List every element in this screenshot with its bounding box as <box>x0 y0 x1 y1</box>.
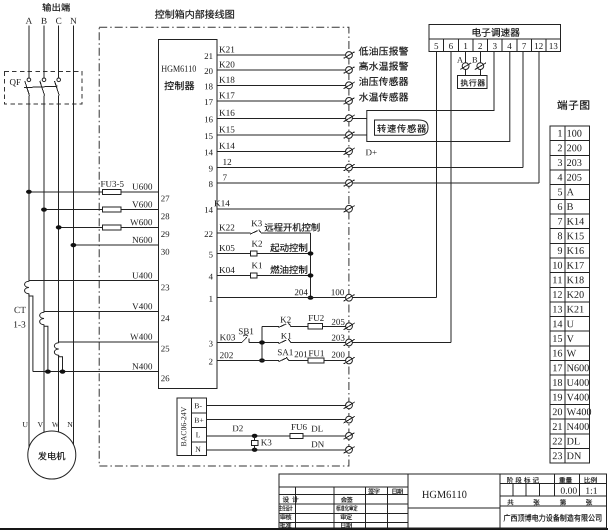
terminal 12 : K20 <box>553 291 584 298</box>
junction node N/K3 <box>252 448 258 452</box>
junction node 204/100 <box>308 296 314 300</box>
junction node CT2 secondary / N400 <box>45 370 51 374</box>
terminal node row K21 <box>344 52 355 59</box>
label V600 <box>132 201 152 207</box>
pin label K14 <box>219 143 234 149</box>
label 201 <box>295 351 308 357</box>
junction node N / N600 <box>71 243 77 247</box>
label 205 <box>332 319 345 325</box>
phase label B <box>41 18 46 24</box>
sheet bottom border <box>0 528 608 530</box>
electronic governor 电子调速器 box <box>429 24 561 38</box>
CT3 secondary wire to N400 node <box>59 355 63 372</box>
control box dash-dot boundary <box>99 27 349 466</box>
speed sensor wire K16 to bracket <box>352 117 366 119</box>
label DN <box>311 441 324 447</box>
wire governor pin 2 to actuator B <box>479 52 481 76</box>
actuator 执行器 box <box>458 76 488 89</box>
wire row K2 to fuse FU2 <box>262 325 346 327</box>
contact K3 on row K22 <box>250 230 261 235</box>
wire controller pin 15 row K15 <box>217 134 346 136</box>
governor terminal 1 <box>464 43 467 49</box>
title block model HGM6110 <box>422 491 466 498</box>
fuse FU6 <box>290 433 303 438</box>
terminal 20 : W400 <box>553 408 591 415</box>
title block header 日期2 <box>392 488 403 494</box>
terminal node row K17 <box>344 98 355 105</box>
governor terminal 13 <box>550 43 558 49</box>
title block company 广西顶博电力设备制造有限公司 <box>504 514 602 522</box>
label BAC06-24V vertical <box>181 407 186 447</box>
relay coil K1 on row K04 <box>250 273 257 278</box>
wire node 203 to governor pin 6 <box>352 342 451 344</box>
terminal node DL <box>344 433 355 440</box>
wire governor pin 5 down to node 100 <box>435 52 437 298</box>
label W600 <box>130 219 152 225</box>
junction node CT3 secondary / N400 <box>60 370 66 374</box>
wire phase A vertical <box>28 26 30 448</box>
governor terminal strip <box>429 39 561 52</box>
fuse FU3-5 element on W600 <box>103 225 122 230</box>
terminal 22 : DL <box>553 438 580 445</box>
label 起动控制 <box>270 243 307 252</box>
wire V600 to controller pin 28 <box>44 209 159 211</box>
junction node riser/K04 <box>308 273 314 277</box>
label 高水温报警 <box>359 61 408 70</box>
wire controller pin 14 row K14 <box>217 150 346 152</box>
wire node 100 to governor pin 5 <box>352 297 436 299</box>
wire controller pin 20 row K20 <box>217 69 346 71</box>
label A <box>457 57 463 63</box>
speed sensor label box 转速传感器 <box>375 120 429 135</box>
governor terminal 5 <box>435 43 439 49</box>
wire row 202 <box>217 360 346 362</box>
wire row K03 from pin 3 <box>217 342 262 344</box>
pin number 9 <box>209 166 213 172</box>
terminal node 203 <box>344 339 355 346</box>
wire governor pin 12 to row 7 <box>352 52 539 183</box>
title block 共张 <box>507 499 539 505</box>
terminal 10 : K17 <box>553 262 584 269</box>
pin label K03 <box>220 334 235 340</box>
label: output terminal 输出端 <box>42 3 70 12</box>
speed sensor wire K15 to bracket <box>352 134 366 136</box>
speed sensor bracket and leads to governor <box>367 52 510 142</box>
generator terminal label V <box>38 422 43 427</box>
terminal node row K20 <box>344 67 355 74</box>
governor terminal 4 <box>507 43 511 49</box>
label U600 <box>132 183 152 189</box>
pin number 1 <box>209 296 212 302</box>
title block header 签字 <box>368 488 380 494</box>
pin label K21 <box>219 46 234 52</box>
terminal 3 : 203 <box>558 159 582 166</box>
wire row K22 remote start <box>217 232 311 234</box>
wire U600 to controller pin 27 <box>29 191 159 193</box>
label FU1 <box>309 350 324 356</box>
wire row L / DL <box>206 435 345 437</box>
label K2 contact <box>280 317 290 323</box>
terminal node A <box>460 63 471 70</box>
fuse FU3-5 element on V600 <box>103 207 122 212</box>
bus riser joining K22/K05/K04 to node 204 <box>310 233 312 298</box>
label FU6 <box>291 424 306 430</box>
terminal node B+ <box>344 416 355 423</box>
breaker QF pole C contact <box>55 78 61 96</box>
CT1 secondary wire to N400 node <box>29 294 33 372</box>
label FU3-5 <box>101 181 124 187</box>
pin label K17 <box>219 92 234 98</box>
current transformer CT2 on phase B <box>40 312 44 324</box>
label CT 1-3 <box>14 307 26 328</box>
phase label C <box>56 18 61 24</box>
breaker QF linkage bar <box>24 86 57 87</box>
label L <box>196 432 200 437</box>
label S41 <box>278 349 293 355</box>
wire W400 to controller pin 25 <box>59 341 159 343</box>
label 204 <box>295 289 308 295</box>
pin number 16 <box>205 116 213 122</box>
label 200 <box>332 352 345 358</box>
governor terminal 3 <box>493 43 497 49</box>
generator terminal label U <box>23 422 28 427</box>
governor terminal 2 <box>478 43 482 49</box>
terminal 13 : K21 <box>553 306 583 313</box>
wire governor pin 6 down to node 203 <box>450 52 452 343</box>
terminal node 100 <box>344 294 355 301</box>
pin number 27 <box>161 196 169 202</box>
label W400 <box>130 334 152 340</box>
contact K2 on row 205 <box>279 323 291 328</box>
junction node riser/K03 row <box>259 340 265 344</box>
pin label K22 <box>219 224 234 230</box>
battery charger BAC06-24V box <box>177 398 206 456</box>
label K2 <box>252 241 262 247</box>
wire controller pin 18 row K18 <box>217 84 346 86</box>
phase label N <box>70 18 76 24</box>
label D2 <box>233 425 243 431</box>
wire V400 to controller pin 24 <box>44 311 159 313</box>
label FU2 <box>308 315 323 321</box>
governor terminal 7 <box>522 43 526 49</box>
title block 第张 <box>560 499 592 505</box>
label 水温传感器 <box>359 92 408 101</box>
wire phase C vertical <box>58 26 60 433</box>
current transformer CT3 on phase C <box>54 343 58 355</box>
wire phase B vertical <box>43 26 45 433</box>
wire row K04 fuel control <box>217 275 311 277</box>
junction node phase B / V600 <box>41 208 47 212</box>
terminal 19 : V400 <box>553 394 589 401</box>
label K3 <box>251 220 261 226</box>
pin number 4 <box>209 274 213 280</box>
label SB1 <box>239 328 253 334</box>
terminal 2 : 200 <box>558 144 582 151</box>
fuse FU1 <box>308 358 324 363</box>
terminal 21 : N400 <box>553 423 589 430</box>
pin number 23 <box>161 284 169 290</box>
contact S41 on row 202 <box>279 357 289 362</box>
junction node phase C / W600 <box>56 225 62 229</box>
pin label K16 <box>219 110 234 116</box>
label V400 <box>132 303 152 309</box>
pin number 3 <box>209 341 213 347</box>
terminal 23 : DN <box>553 452 581 459</box>
wire row B- to terminal <box>206 404 345 406</box>
title block label 主任设计 <box>279 505 293 511</box>
wire controller pin 16 row K16 <box>217 117 346 119</box>
pin label 202 <box>220 352 233 358</box>
governor terminal 12 <box>535 43 543 49</box>
terminal node B- <box>344 402 355 409</box>
wire row N / DN <box>206 449 345 451</box>
pin number 8 <box>209 181 213 187</box>
terminal node 205 <box>344 323 355 330</box>
wire controller pin 14 row K14 <box>217 208 346 210</box>
label K1 <box>252 262 262 268</box>
riser SB1 node to rows K2 and 202 <box>261 326 263 360</box>
pin number 30 <box>161 249 169 255</box>
phase label A <box>26 18 32 24</box>
pin number 29 <box>161 231 169 237</box>
pin label K18 <box>219 77 234 83</box>
terminal 17 : N600 <box>553 364 589 371</box>
label 油压传感器 <box>359 77 408 86</box>
label N600 <box>132 237 152 243</box>
pin number 14 <box>205 207 213 213</box>
label N400 <box>132 363 152 369</box>
terminal node row K15 <box>344 132 355 139</box>
label D+ <box>366 149 377 155</box>
pin number 17 <box>205 99 213 105</box>
terminal node row K14 <box>344 205 355 212</box>
terminal node B <box>475 63 486 70</box>
wire N400 to controller pin 26 <box>33 371 159 373</box>
terminal 5 : A <box>558 189 574 196</box>
junction node phase A / U600 <box>26 190 32 194</box>
pin number 25 <box>161 346 169 352</box>
junction node L/K3 <box>252 434 258 438</box>
pin number 21 <box>205 53 213 59</box>
generator terminal label N <box>67 422 72 427</box>
wire W600 to controller pin 29 <box>59 226 159 228</box>
wire N600 to controller pin 30 <box>73 244 158 246</box>
pin number 28 <box>161 213 169 219</box>
wire neutral N vertical <box>72 26 74 445</box>
terminal node row 12 <box>344 164 355 171</box>
pin label 12 <box>223 159 231 165</box>
wire controller pin 21 row K21 <box>217 54 346 56</box>
label N <box>195 447 200 452</box>
terminal 14 : U <box>553 320 574 327</box>
label 燃油控制 <box>270 265 307 274</box>
terminal 1 : 100 <box>558 130 581 137</box>
title block label 审定 <box>341 514 353 520</box>
label: control box internal wiring diagram title <box>155 9 234 19</box>
title block label 日期 <box>341 522 352 528</box>
terminal 8 : K15 <box>558 232 584 239</box>
wire governor pin 1 to actuator A <box>465 52 467 76</box>
CT2 secondary wire to N400 node <box>44 325 48 372</box>
terminal 7 : K14 <box>558 218 584 225</box>
pin number 24 <box>161 315 169 321</box>
breaker QF pole A contact <box>25 78 31 96</box>
junction node riser/K05 <box>308 251 314 255</box>
pin label K20 <box>219 61 234 67</box>
title block label 批准 <box>280 522 292 528</box>
terminal node 200 <box>344 357 355 364</box>
pin label K04 <box>219 267 234 273</box>
terminal table grid <box>550 126 590 463</box>
pin label K14 <box>214 200 229 206</box>
fuse FU2 <box>308 324 323 329</box>
title block header 重量 <box>559 477 572 483</box>
wire row B+ to terminal <box>206 419 345 421</box>
pin label 7 <box>223 175 227 181</box>
title block scale 1:1 <box>586 487 597 493</box>
title block weight 0.00 <box>561 487 577 494</box>
label K1 contact <box>281 333 291 339</box>
circuit breaker QF dashed box <box>5 72 83 105</box>
terminal 15 : V <box>553 335 574 342</box>
terminal 18 : U400 <box>553 379 589 386</box>
pin number 26 <box>161 375 169 381</box>
label B+ <box>194 418 203 423</box>
generator terminal label W <box>52 422 59 427</box>
label DL <box>311 426 322 432</box>
wire row K05 start control <box>217 253 311 255</box>
pin number 15 <box>205 133 213 139</box>
fuse FU3-5 element on U600 <box>103 189 122 194</box>
pin label K15 <box>219 126 234 132</box>
breaker QF pole B contact <box>40 78 46 96</box>
pin number 5 <box>209 252 213 258</box>
wire controller pin 9 row 12 <box>217 167 346 169</box>
terminal 4 : 205 <box>558 174 582 181</box>
wire controller pin 8 row 7 <box>217 182 346 184</box>
pin number 18 <box>205 83 213 89</box>
label 203 <box>332 335 345 341</box>
pin label K05 <box>219 245 234 251</box>
label 低油压报警 <box>359 46 409 55</box>
terminal node row 7 <box>344 180 355 187</box>
relay coil K2 on row K05 <box>250 251 257 256</box>
label HGM6110 <box>162 65 196 71</box>
relay coil K3 <box>251 436 258 450</box>
label K3 coil <box>261 439 271 445</box>
terminal node DN <box>344 446 355 453</box>
terminal 16 : W <box>553 350 576 357</box>
terminal node row K16 <box>344 115 355 122</box>
contact K1 on row 203 <box>279 339 291 344</box>
label B- <box>194 403 201 408</box>
label QF <box>10 79 21 86</box>
pin number 20 <box>205 68 213 74</box>
title block header 比例 <box>584 477 596 483</box>
label U400 <box>132 272 152 278</box>
title block label 会签 <box>341 497 353 503</box>
pin number 14 <box>205 149 213 155</box>
terminal 9 : K16 <box>558 247 584 254</box>
current transformer CT1 on phase A <box>25 281 29 293</box>
wire governor pin 7 to row 12 <box>352 52 523 168</box>
title block label 标准化审定 <box>336 505 358 511</box>
wire row 204 / 100 to terminal <box>217 297 346 299</box>
title block label 审核 <box>280 514 292 520</box>
pin number 2 <box>209 359 213 365</box>
title block frame <box>279 474 607 528</box>
terminal node row K18 <box>344 82 355 89</box>
pin number 22 <box>205 231 213 237</box>
terminal 6 : B <box>558 203 573 210</box>
label B <box>472 57 477 62</box>
terminal 11 : K18 <box>553 276 584 283</box>
pushbutton SB1 <box>242 335 249 343</box>
label 100 <box>332 289 344 295</box>
controller U1 HGM6110 box <box>159 40 218 389</box>
generator circle 发电机 <box>28 431 76 479</box>
terminal diagram 端子图 title <box>557 100 589 110</box>
label 远程开机控制 <box>265 223 320 232</box>
wire K03 junction to contact K1 <box>262 342 346 344</box>
terminal node row K14 <box>344 148 355 155</box>
title block header 阶段标记 <box>507 477 539 483</box>
wire U400 to controller pin 23 <box>29 280 159 282</box>
junction node riser/202 row <box>259 358 265 362</box>
wire controller pin 17 row K17 <box>217 100 346 102</box>
governor terminal 6 <box>449 43 453 49</box>
title block label 设计 <box>283 496 299 502</box>
